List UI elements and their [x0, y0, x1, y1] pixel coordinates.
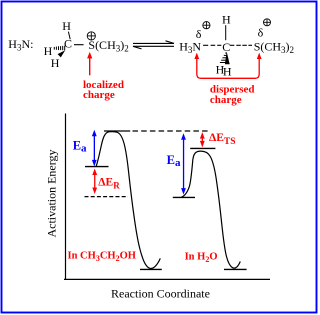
circled plus on N (right) — [203, 22, 210, 29]
svg-text:Ea: Ea — [73, 138, 87, 154]
wire: bond H to C — [225, 25, 227, 40]
svg-text:δ: δ — [196, 27, 202, 41]
lower dashed line (H2O reactant level extended) — [85, 196, 129, 198]
red bracket with two up arrows (dispersed charge) — [197, 58, 259, 79]
svg-text:Ea: Ea — [167, 153, 181, 169]
right reactant level tick — [173, 196, 195, 198]
x-axis — [64, 278, 270, 280]
circled plus on S (right) — [264, 19, 271, 26]
solid wedge below C (right) — [225, 52, 230, 65]
wire: bond top H to C — [68, 32, 70, 40]
svg-text:Activation Energy: Activation Energy — [45, 149, 59, 237]
left peak level tick — [104, 130, 130, 132]
red arrow pointing up at S (localized charge) — [87, 52, 92, 75]
left energy curve (In CH3CH2OH) — [96, 132, 160, 269]
svg-text:C: C — [222, 40, 230, 54]
svg-text:H: H — [62, 19, 71, 33]
left valley tick — [140, 268, 162, 270]
red arrowhead left — [194, 53, 199, 59]
svg-text:H3N: H3N — [179, 39, 201, 55]
svg-text:charge: charge — [210, 94, 242, 106]
svg-text:δ: δ — [258, 26, 264, 40]
blue Ea arrow (right) — [181, 133, 186, 194]
hashed wedge H to C — [54, 46, 64, 51]
wire: C-S bond — [74, 44, 84, 46]
left reactant level tick — [85, 166, 109, 168]
top dashed line (TS level extended) — [133, 130, 209, 132]
svg-text:H: H — [51, 56, 60, 70]
svg-text:charge: charge — [83, 89, 115, 101]
right energy curve (In H2O) — [181, 151, 240, 268]
svg-text:In CH3CH2OH: In CH3CH2OH — [68, 250, 136, 263]
svg-text:S(CH3)2: S(CH3)2 — [254, 40, 294, 56]
svg-text:ΔER: ΔER — [98, 176, 120, 190]
right peak level tick — [190, 147, 215, 149]
right valley tick — [224, 268, 247, 270]
svg-text:In H2O: In H2O — [185, 252, 218, 265]
svg-text:Reaction Coordinate: Reaction Coordinate — [111, 286, 210, 300]
dashed bond N---C — [203, 44, 221, 46]
svg-text:ΔETS: ΔETS — [209, 132, 236, 147]
equilibrium arrows — [133, 41, 174, 49]
svg-text:H: H — [222, 13, 231, 27]
solid wedge C to bottom H — [58, 50, 66, 57]
red arrowhead right — [257, 53, 262, 59]
svg-text:S(CH3)2: S(CH3)2 — [88, 38, 128, 54]
red dE_TS arrow — [200, 132, 205, 147]
blue Ea arrow (left) — [92, 130, 97, 167]
svg-text:H3N:: H3N: — [8, 37, 33, 53]
red dE_R arrow — [92, 169, 97, 195]
svg-text:C: C — [64, 36, 72, 50]
hashed wedge below C (right) — [220, 53, 227, 63]
circled plus on S (left) — [87, 32, 95, 40]
svg-text:H: H — [223, 64, 232, 78]
y-axis — [65, 114, 67, 280]
